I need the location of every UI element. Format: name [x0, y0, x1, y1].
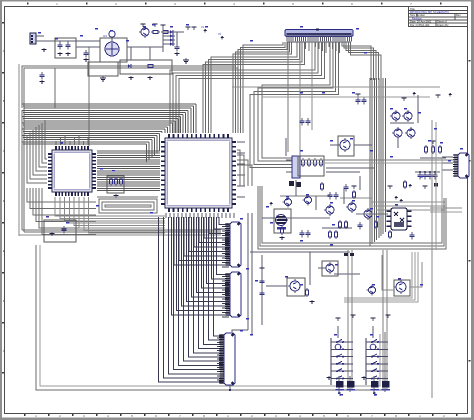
wire y218 row	[278, 214, 388, 218]
transistor Q12	[364, 210, 372, 218]
box lower A	[88, 62, 118, 76]
net labels speckle	[38, 24, 463, 395]
wire cluster mid-right extras	[280, 176, 372, 210]
capacitor C16	[307, 118, 309, 121]
wire lower-left loop	[36, 245, 385, 390]
capacitor C17	[301, 230, 303, 233]
wire bus mid mass	[22, 104, 196, 144]
IC U2	[161, 134, 236, 212]
wire bus U1 bottom drops	[55, 197, 165, 233]
ground r22	[281, 236, 283, 238]
capacitor C23	[411, 232, 413, 235]
resistor array mid	[298, 156, 324, 176]
switch array S2	[362, 250, 391, 394]
wire vertical x89	[88, 47, 90, 146]
svg-text:A: A	[3, 49, 5, 53]
resistor R21	[345, 220, 347, 222]
wire bus U2 right to loops	[237, 150, 252, 186]
parts near U8	[322, 186, 357, 239]
power arrow net1	[201, 26, 207, 33]
resistor R2	[161, 31, 163, 33]
wire vertical x55	[54, 68, 56, 108]
wire bus nested loops below U1	[97, 197, 158, 213]
wire verticals below J2 to circuits	[288, 42, 312, 160]
transistor Q18	[285, 199, 292, 206]
right edge wires	[430, 120, 462, 398]
wire power rail top	[44, 40, 100, 42]
diode D1	[126, 65, 128, 67]
wire cap taps	[60, 41, 68, 42]
wire bus right loops bottom	[258, 186, 446, 249]
power bar q1	[142, 24, 144, 27]
wire J2 extra pin stubs	[302, 42, 339, 53]
capacitor C20	[359, 222, 361, 225]
svg-text:E: E	[3, 249, 5, 253]
capacitor C1	[59, 42, 61, 45]
connector J2 top	[285, 28, 353, 43]
wire Q1 row	[170, 31, 184, 33]
wire fan into J5	[159, 217, 224, 382]
resistor R1	[151, 31, 153, 33]
wire bus U1 top drops	[56, 135, 88, 145]
IC U8 dual mosfet	[387, 208, 412, 230]
IC U1	[48, 146, 96, 196]
box below U1	[44, 220, 76, 242]
resistor stack right	[420, 141, 446, 158]
ground C2	[67, 52, 69, 54]
wire bus J2 fan tier3	[170, 42, 325, 133]
svg-text:Drawn By:: Drawn By:	[437, 23, 449, 27]
wire bus J2 fan tier4	[250, 42, 338, 168]
window edge band	[0, 0, 474, 2]
wire bus mass drops to U2 top	[147, 104, 196, 162]
transistor Q1	[141, 28, 149, 36]
power symbols right mid	[388, 184, 428, 189]
wire bottom connector down	[229, 385, 231, 391]
border reference ticks right	[469, 60, 471, 362]
capacitor chain x262	[260, 255, 265, 325]
box input caps	[55, 38, 76, 58]
wire fan into J4	[172, 217, 230, 317]
transistor Q13	[262, 202, 291, 233]
switch array S1	[327, 250, 356, 394]
wire bus between U1 and U2	[97, 151, 160, 191]
ground below U1	[51, 232, 53, 234]
wire x310 drop	[309, 252, 311, 285]
transistor Q16 cell	[318, 261, 360, 276]
ground C3	[85, 58, 87, 60]
capacitor C18	[307, 230, 309, 233]
wire bottom right links	[340, 392, 375, 396]
transistor Q11	[348, 203, 356, 211]
ground R3	[149, 76, 151, 78]
power bar q2	[154, 24, 156, 27]
title block	[409, 7, 468, 27]
wire bus right vertical bundle	[370, 78, 385, 246]
diode ladder array	[161, 25, 180, 55]
wire bus U2 bottom fan verticals	[166, 213, 234, 218]
transistor Q15 cell	[266, 278, 315, 303]
border reference ticks top	[27, 3, 442, 5]
power arrow r1	[413, 92, 415, 96]
svg-text:U3: U3	[103, 34, 107, 38]
wire lower-left loop 2	[40, 245, 380, 386]
capacitor C14	[63, 226, 65, 229]
wire box taps	[131, 47, 150, 60]
resistor R24	[375, 220, 377, 222]
resistor R20	[339, 220, 341, 222]
mosfet pair row1	[390, 110, 414, 123]
transistor U5	[330, 136, 372, 156]
ground mid	[102, 76, 104, 78]
oscillator Y1	[286, 156, 300, 178]
crystal caps below Y1	[286, 138, 301, 187]
power arrow net2	[218, 33, 224, 40]
wire U3 out	[127, 46, 163, 48]
wire U2 right pin stubs	[237, 142, 245, 197]
resistor pack mid	[107, 176, 124, 197]
nested corner right low	[344, 252, 418, 302]
connector J1 power	[30, 33, 44, 44]
wire bus J2 fan right tier	[342, 42, 381, 80]
connector J4	[230, 272, 241, 317]
svg-text:Rev: Rev	[456, 13, 461, 17]
capacitor C3	[85, 50, 87, 53]
capacitor C2	[67, 42, 69, 45]
wire right rows	[232, 87, 455, 172]
resistor R22	[281, 226, 283, 228]
power arrows above U8	[394, 196, 403, 203]
svg-text:B: B	[3, 99, 5, 103]
power arrow r3	[449, 93, 451, 97]
power bar r1	[403, 98, 405, 101]
power bar C8	[193, 27, 195, 30]
wire bus J2 fan tier2	[203, 42, 305, 133]
svg-text:File: D:\PDA.ddb: File: D:\PDA.ddb	[410, 23, 430, 27]
connector J3	[230, 222, 241, 267]
border reference ticks bottom	[24, 414, 457, 416]
resistor R3	[146, 65, 148, 67]
capacitor bank r	[356, 94, 367, 105]
component mark pair	[344, 253, 354, 256]
transistor Q10	[326, 206, 334, 214]
wire bus right lower corners	[371, 202, 445, 210]
capacitor C13	[41, 72, 43, 75]
mosfet pair row2	[392, 127, 415, 148]
wire long verticals to J5 top	[232, 213, 252, 334]
resistor R27	[389, 230, 391, 232]
transistor Q19	[305, 197, 312, 204]
svg-text:F: F	[3, 299, 5, 303]
ground C13	[41, 80, 43, 82]
ground ladder2	[185, 58, 187, 60]
connector J6 right	[458, 153, 469, 178]
capacitor row right	[404, 171, 441, 189]
buzzer U3	[100, 31, 127, 62]
wire bus below U1 wrap	[27, 188, 96, 235]
wire ring around core	[19, 64, 238, 236]
box lower B	[120, 60, 172, 74]
capacitor C15	[301, 118, 303, 121]
transistor Q17 cell	[367, 255, 423, 296]
power bar r3	[437, 95, 439, 98]
wire J6 pig tails	[442, 157, 453, 208]
border reference ticks left	[2, 22, 4, 374]
ground C1	[59, 52, 61, 54]
resistor R26	[321, 182, 323, 184]
wire bus staircase into U1 left	[27, 120, 47, 183]
wire x418	[417, 95, 419, 123]
ground D1	[130, 76, 132, 78]
wire U3 in	[76, 46, 100, 48]
capacitor C22	[345, 184, 347, 187]
ground J1	[43, 48, 45, 50]
connector J5	[224, 333, 235, 385]
wire fan into J3	[174, 217, 229, 267]
wire y252 dark	[250, 251, 350, 253]
power bar C7	[187, 27, 189, 30]
wire bus J2 fan tier1	[233, 42, 291, 133]
